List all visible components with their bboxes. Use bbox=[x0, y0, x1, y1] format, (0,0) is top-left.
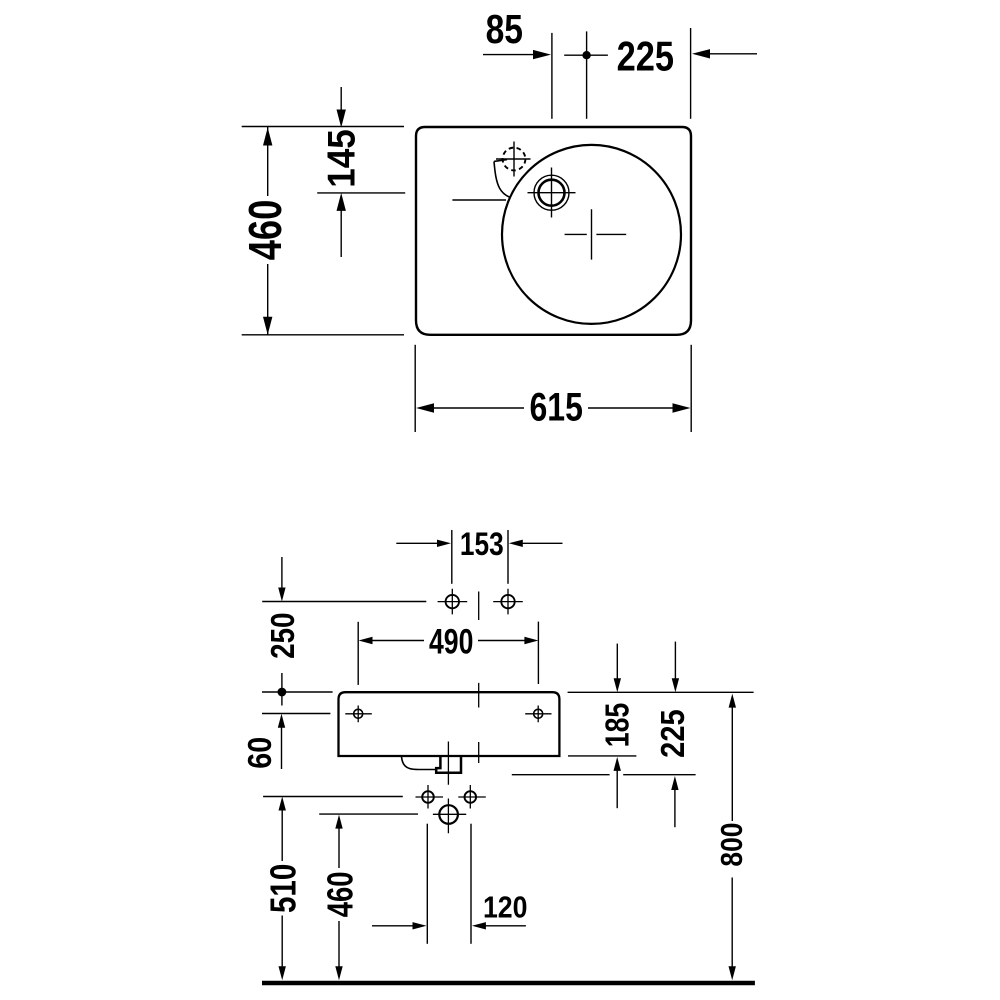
ext line 120 right bbox=[470, 824, 472, 944]
ext line basin bottom level (left) bbox=[242, 334, 404, 336]
svg-text:250: 250 bbox=[264, 613, 302, 659]
waste outlet circle bbox=[439, 805, 458, 824]
arrowhead 145 up bbox=[337, 193, 346, 211]
arrowhead 225b up bbox=[671, 776, 678, 790]
arrowhead 490 left bbox=[359, 637, 373, 644]
dim 60 upper segment bbox=[281, 692, 283, 706]
supply hole left bbox=[422, 791, 434, 803]
ext line 153 left bbox=[451, 530, 453, 584]
svg-text:460: 460 bbox=[320, 872, 361, 918]
arrowhead 460 top bbox=[263, 128, 272, 146]
drain centerline bbox=[447, 742, 449, 834]
svg-text:85: 85 bbox=[486, 6, 523, 52]
wall hole left bbox=[446, 595, 459, 608]
ext line 510 y=796.5 bbox=[263, 796, 403, 798]
bowl circle bbox=[502, 145, 681, 324]
dim 460b stems bbox=[338, 828, 340, 967]
dim 250 stem bbox=[281, 557, 283, 589]
label 153 bbox=[460, 527, 504, 562]
ext line 490 right bbox=[537, 622, 539, 684]
dot marker B bbox=[582, 51, 590, 59]
label 615 bbox=[530, 384, 583, 429]
dim 225 tail line bbox=[706, 53, 757, 55]
ext line 615 left bbox=[414, 345, 416, 432]
label 225b bbox=[654, 709, 691, 757]
label 145 bbox=[319, 129, 363, 188]
arrowhead 185 down bbox=[614, 678, 621, 692]
dim 800 upper stem bbox=[731, 707, 733, 821]
dot marker 250/60 bbox=[278, 688, 287, 697]
label 185 bbox=[600, 703, 636, 748]
label 225 top bbox=[617, 33, 674, 80]
arrowhead 490 right bbox=[524, 637, 538, 644]
deck pocket outline bbox=[494, 160, 510, 198]
arrowhead 145 down bbox=[337, 110, 346, 128]
dim 185 upper stem bbox=[616, 644, 618, 679]
label 60 bbox=[241, 737, 278, 769]
label 510 bbox=[264, 864, 305, 913]
leader line left of bowl bbox=[452, 199, 506, 201]
arrowhead 85 right bbox=[533, 50, 551, 59]
supply hole left cross bbox=[416, 785, 444, 809]
arrowhead 153 left bbox=[437, 540, 451, 547]
dim 153 left tail bbox=[396, 542, 439, 544]
dim 460 line bbox=[267, 127, 269, 335]
dim 153 right tail bbox=[521, 542, 563, 544]
wall hole left cross bbox=[438, 589, 468, 615]
label 250 bbox=[264, 613, 302, 659]
drain hole outer circle bbox=[534, 175, 569, 210]
supply hole right cross bbox=[458, 785, 486, 809]
svg-text:225: 225 bbox=[654, 709, 691, 757]
ext line basin top right y=692.3 bbox=[568, 691, 754, 693]
dim 185 lower stem bbox=[616, 770, 618, 808]
label 120 bbox=[483, 891, 527, 925]
svg-text:510: 510 bbox=[264, 864, 305, 913]
svg-text:153: 153 bbox=[460, 527, 504, 562]
basin fixing hole right bbox=[534, 709, 543, 718]
label 460b bbox=[320, 872, 361, 918]
arrowhead 615 right bbox=[673, 403, 691, 412]
dim 800 lower stem bbox=[731, 878, 733, 967]
arrowhead 800 down bbox=[729, 966, 736, 980]
arrowhead 185 up bbox=[614, 757, 621, 771]
label 490 bbox=[429, 622, 473, 661]
basin fixing hole right cross bbox=[525, 706, 551, 723]
basin plan outline bbox=[416, 127, 691, 335]
wall hole right cross bbox=[493, 589, 523, 615]
floor line bbox=[262, 981, 755, 986]
svg-text:185: 185 bbox=[600, 703, 636, 748]
faucet hole dashed circle bbox=[503, 148, 526, 171]
arrowhead 510 down bbox=[279, 966, 286, 980]
ext line basin top level (left) bbox=[242, 126, 404, 128]
svg-text:490: 490 bbox=[429, 622, 473, 661]
svg-text:145: 145 bbox=[319, 129, 363, 188]
basin fixing hole left cross bbox=[345, 706, 372, 723]
waste outlet cross bbox=[433, 813, 466, 815]
ext line C x=690.6 top bbox=[690, 28, 692, 119]
label 460 left bbox=[239, 200, 291, 261]
drain pipe thick outline bbox=[436, 757, 461, 773]
arrowhead 460 bottom bbox=[263, 317, 272, 335]
wall hole right bbox=[501, 595, 514, 608]
centerline between holes bbox=[478, 592, 480, 764]
supply hole right bbox=[465, 791, 477, 803]
drain hole cross bbox=[528, 168, 576, 218]
dim 85 line bbox=[483, 54, 537, 56]
ext line 460b y=814.1 bbox=[319, 813, 418, 815]
ext line holes level y=601.5 bbox=[262, 601, 426, 603]
svg-text:60: 60 bbox=[241, 737, 278, 769]
arrowhead 250 down bbox=[278, 588, 285, 602]
arrowhead 120 right bbox=[413, 922, 427, 929]
ext line A x=551.9 bbox=[551, 33, 553, 119]
arrowhead 460b up bbox=[335, 815, 342, 829]
ext line 615 right bbox=[690, 345, 692, 432]
ext line basin bottom right y=755.9 bbox=[568, 755, 636, 757]
dim 510 stems bbox=[281, 810, 283, 967]
svg-text:120: 120 bbox=[483, 891, 527, 925]
arrowhead 800 up bbox=[729, 694, 736, 708]
ext line 153 right bbox=[507, 530, 509, 584]
arrowhead 60 up bbox=[278, 714, 285, 728]
ext line 120 left bbox=[426, 824, 428, 944]
dim 120 right tail bbox=[484, 925, 526, 927]
dim 250 lower segment bbox=[281, 673, 283, 692]
ext line y=774.7 bbox=[512, 774, 696, 776]
trap thin outline bbox=[402, 757, 437, 770]
ext line 490 left bbox=[357, 622, 359, 685]
svg-text:615: 615 bbox=[530, 384, 583, 429]
ext line drain level (left) bbox=[317, 192, 405, 194]
dot line at y=55 bbox=[564, 54, 608, 56]
drain hole inner circle bbox=[539, 180, 565, 206]
svg-text:800: 800 bbox=[715, 823, 749, 867]
arrowhead 225b down bbox=[672, 678, 679, 692]
ext line B x=586.6 bbox=[586, 31, 588, 118]
arrowhead 153 right bbox=[509, 540, 523, 547]
ext line fixing level left y=713.5 bbox=[262, 713, 330, 715]
label 800 bbox=[715, 823, 749, 867]
svg-text:460: 460 bbox=[239, 200, 291, 261]
dim 225b lower stem bbox=[674, 789, 676, 827]
dim 145 arrows stems bbox=[340, 87, 342, 257]
arrowhead 615 left bbox=[416, 403, 434, 412]
faucet hole cross bbox=[496, 142, 531, 177]
arrowhead 510 up bbox=[279, 797, 286, 811]
basin front outline bbox=[339, 692, 560, 756]
arrowhead 225 left bbox=[692, 49, 710, 58]
svg-text:225: 225 bbox=[617, 33, 674, 80]
basin fixing hole left bbox=[354, 709, 363, 718]
dim 490 line bbox=[372, 640, 526, 642]
dim 60 stem bbox=[281, 727, 283, 769]
dim 615 line bbox=[429, 407, 678, 409]
arrowhead 460b down bbox=[335, 966, 342, 980]
dim 120 left tail bbox=[372, 925, 414, 927]
bowl center cross bbox=[565, 209, 627, 259]
ext line basin top level left y=692 bbox=[262, 691, 333, 693]
label 85 bbox=[486, 6, 523, 52]
dim 225b upper stem bbox=[674, 642, 676, 679]
arrowhead 120 left bbox=[472, 922, 486, 929]
